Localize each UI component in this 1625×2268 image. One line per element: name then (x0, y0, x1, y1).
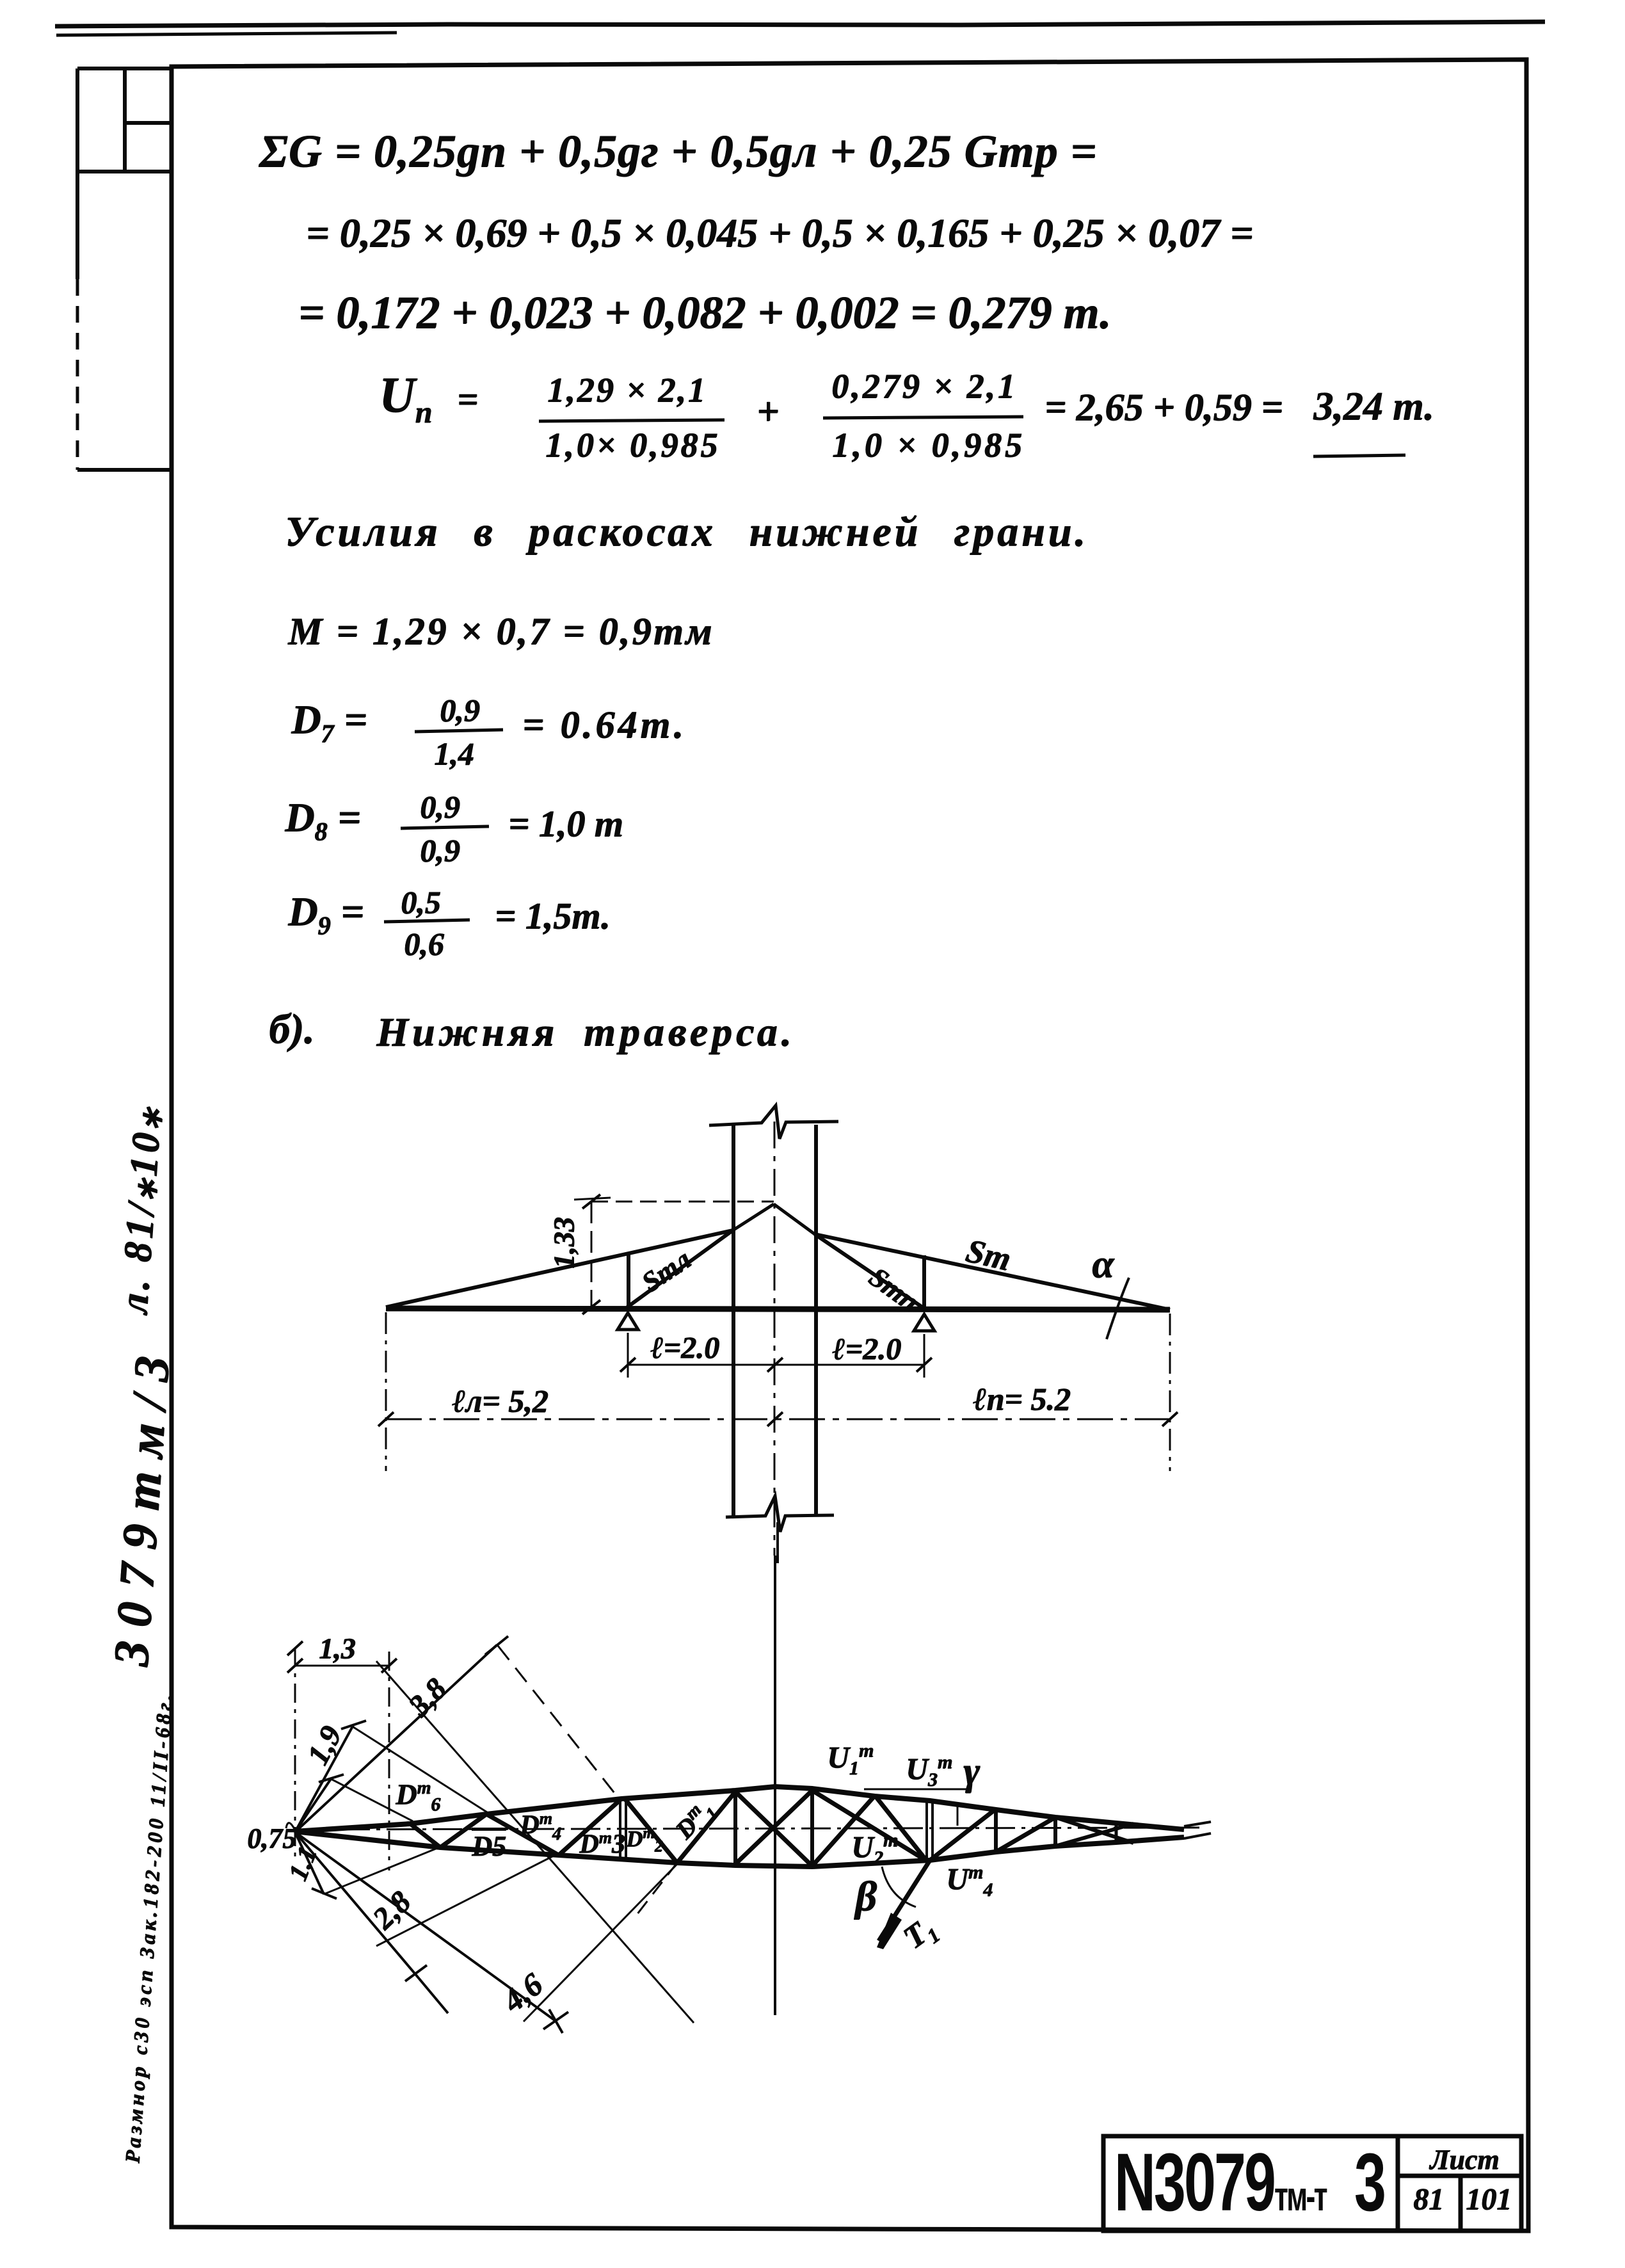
label 3,8 (403, 1673, 452, 1723)
dim 1,33 horizontal dashed extension (591, 1201, 774, 1203)
fan dim 1,3 slash left (287, 1659, 303, 1673)
label 1,1 (284, 1843, 322, 1884)
dim l=2.0 slash right (917, 1358, 932, 1372)
D7 line (291, 699, 367, 740)
label D1 (671, 1796, 718, 1843)
top outer rule (55, 22, 1545, 26)
dim l=2.0 slash left (620, 1358, 636, 1372)
traverse beam (386, 1308, 1170, 1310)
label D3 (579, 1831, 625, 1858)
right strut (922, 1255, 926, 1308)
truss vertical v4 (1053, 1817, 1057, 1846)
tick end of ray 4,6 (543, 2012, 568, 2029)
column centerline (774, 1122, 776, 1556)
long thin construction line (376, 1661, 694, 2023)
truss double vertical 1a (619, 1799, 621, 1858)
label 1,3 (319, 1634, 356, 1663)
tick end of ray 0,75 (319, 1774, 344, 1782)
formula line 1 (259, 128, 1097, 174)
title block 81 (1413, 2184, 1444, 2215)
truss bottom chord (294, 1831, 1184, 1867)
dim 1,33 slash top (582, 1194, 600, 1209)
label 4,6 (497, 1968, 548, 2018)
D8 line (285, 797, 361, 838)
dim l=2.0 extension vertical right (924, 1334, 925, 1378)
truss diagonal U-panel (875, 1796, 927, 1861)
column top break (709, 1106, 838, 1139)
tick end of ray 1,9 (341, 1721, 366, 1729)
fan ray 4,6 (295, 1832, 556, 2021)
label alpha (1092, 1244, 1114, 1284)
label 2,8 (367, 1886, 417, 1934)
left strut (627, 1254, 630, 1307)
dim 5,2 extension vertical left (385, 1312, 387, 1471)
dashed extension of diagonal below chord (632, 1863, 677, 1920)
connector 2,8 (376, 1854, 557, 1946)
label Sтп (864, 1262, 924, 1316)
fan ray 2,8 (295, 1832, 448, 2013)
dim 1,33 vertical line (591, 1202, 593, 1307)
truss double vertical 2a (925, 1800, 928, 1860)
label beta (855, 1876, 877, 1918)
truss top chord (294, 1787, 1184, 1831)
fan ray 0,75 (295, 1779, 331, 1832)
truss X panel center diagonal a (735, 1792, 812, 1866)
truss tip tail bottom (1184, 1833, 1211, 1838)
formula line 3 (298, 289, 1111, 335)
label U1 (827, 1742, 874, 1773)
dim 5,2 line dash-dot (386, 1419, 1170, 1420)
truss vertical v5 (1115, 1824, 1118, 1843)
truss diagonal right 1 (996, 1817, 1055, 1852)
gamma leader line (864, 1789, 966, 1790)
label Sтл (637, 1245, 696, 1298)
dim 1,33 top tick (574, 1198, 611, 1200)
vertical right of center (810, 1790, 814, 1866)
left guy cable (386, 1230, 733, 1307)
connector 1,9 (353, 1727, 487, 1812)
title block Лист (1430, 2146, 1499, 2174)
dim 1,33 slash bottom (582, 1300, 600, 1314)
truss diagonal at U4 node (930, 1809, 996, 1860)
label U2 (851, 1832, 898, 1863)
side note small (122, 1691, 175, 2164)
label D6 (396, 1780, 440, 1809)
label D2 (626, 1827, 663, 1850)
left support triangle (618, 1313, 638, 1330)
tick end of ray 3,8 (485, 1636, 508, 1655)
column right line (814, 1125, 818, 1516)
beta angle arc (882, 1867, 916, 1907)
label 0,75 leader curl (286, 1823, 295, 1830)
truss diagonal D1 (677, 1792, 735, 1863)
dim 5,2 extension vertical right (1169, 1314, 1171, 1471)
right support triangle (914, 1314, 934, 1331)
main vertical centerline to lower diagram (774, 1556, 776, 2015)
right guy cable Sт (815, 1234, 1170, 1310)
fraction bars D7 D8 D9 (415, 730, 503, 732)
truss diagonal D3 (559, 1799, 621, 1855)
label 0,75 (247, 1824, 296, 1853)
D9 line (288, 891, 364, 932)
connector 1,1 (324, 1847, 439, 1894)
dim 5,2 slash right (1162, 1412, 1178, 1426)
fan dim vertical left (294, 1648, 296, 1862)
label D5 (472, 1832, 506, 1860)
label 1,9 (302, 1721, 348, 1770)
formula line 2 (306, 213, 1253, 253)
truss diagonal D5 (440, 1814, 486, 1847)
connector 4,6 (524, 1864, 677, 2022)
truss X panel right diagonal a (812, 1790, 927, 1861)
column left line (732, 1125, 735, 1516)
truss X far right diagonal b (1055, 1817, 1133, 1843)
tick end of ray 2,8 (405, 1965, 427, 1981)
label l_p = 5.2 (973, 1383, 1071, 1415)
heading: усилия в раскосах нижней грани (285, 511, 1089, 553)
fan dim 1,3 slash right (381, 1659, 397, 1673)
connector dashed from 3,8 to truss (498, 1646, 620, 1799)
truss X panel right diagonal b (812, 1796, 875, 1866)
fan ray 1,9 (295, 1725, 353, 1832)
side note 3079тм/3 (106, 1340, 178, 1668)
fan dim 1,3 line (295, 1665, 389, 1667)
truss vertical v3 (994, 1810, 998, 1852)
label U4 (946, 1864, 993, 1895)
drawing frame (172, 60, 1528, 2231)
T1 force arrow (879, 1860, 930, 1941)
stamp box top-left (77, 68, 172, 470)
truss diagonal D2 (625, 1799, 677, 1863)
label U3 (906, 1754, 952, 1785)
label gamma (963, 1751, 980, 1791)
dim 5,2 slash center (767, 1412, 783, 1426)
tick at top of fan vertical (287, 1641, 303, 1655)
label l_l = 5,2 (452, 1385, 548, 1417)
truss double vertical 2b (931, 1800, 934, 1860)
vertical (733, 1792, 737, 1864)
cable Sтл (627, 1230, 733, 1307)
label T1 (897, 1911, 940, 1954)
alpha angle slash (1107, 1278, 1129, 1339)
dim l=2.0 slash center (767, 1358, 783, 1372)
label l=2.0 left (650, 1333, 719, 1363)
title block (1103, 2136, 1521, 2231)
connector 0,75 (331, 1779, 413, 1821)
side note л. 81/101 (114, 1104, 168, 1315)
truss tip tail top (1184, 1822, 1211, 1826)
M = 1,29 x 0,7 (288, 612, 714, 650)
dim l=2.0 extension vertical left (627, 1333, 629, 1378)
title block text N3079тм-т 3 (1114, 2142, 1384, 2224)
title block 101 (1466, 2184, 1512, 2215)
formula line 4 : Un equation (379, 370, 478, 420)
label D4 (520, 1812, 561, 1838)
fan ray 3,8 (295, 1645, 497, 1832)
fan dim vertical right (388, 1652, 390, 1870)
cable Sтп (815, 1234, 924, 1308)
dim l=2.0 line (628, 1364, 924, 1366)
truss double vertical 1b (625, 1799, 627, 1858)
fan ray 1,1 (295, 1832, 324, 1894)
label l=2.0 right (832, 1334, 901, 1365)
б). Нижняя траверса. (269, 1008, 314, 1050)
label Sт (963, 1234, 1013, 1276)
column bottom break (726, 1496, 834, 1532)
truss diagonal D6 (410, 1824, 440, 1847)
dim 5,2 slash left (378, 1412, 394, 1426)
label 1,33 rotated (549, 1218, 579, 1269)
truss horizontal axis dash-dot (294, 1828, 1203, 1830)
tick end of ray 1,1 (312, 1888, 337, 1899)
cross tick end of ray 4,6 (549, 2009, 563, 2033)
truss diagonal D4 (486, 1814, 559, 1855)
truss X far right diagonal a (1055, 1824, 1133, 1846)
truss X panel center diagonal b (735, 1790, 812, 1864)
